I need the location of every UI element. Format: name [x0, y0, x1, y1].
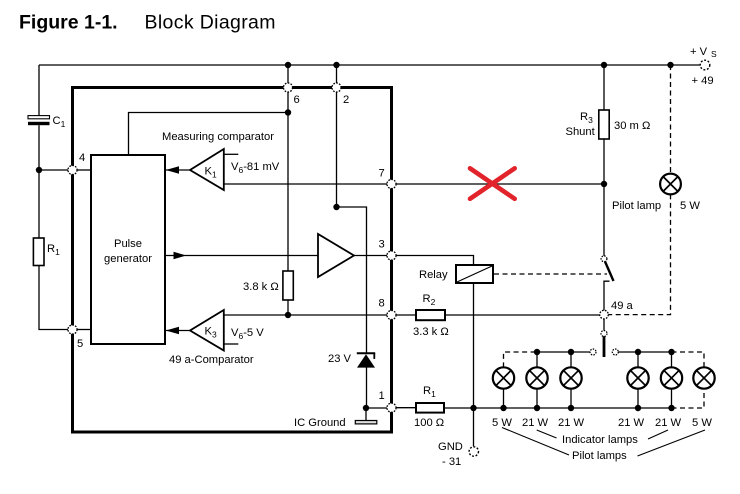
- wire pulse gen output to amp with arrowhead: [165, 255, 318, 257]
- zener diode 23V: [328, 353, 375, 368]
- wire pin4 to pulse generator: [77, 169, 91, 171]
- capacitor C1: [28, 115, 66, 129]
- comparator K1: [190, 149, 224, 190]
- lamp bus top left dashed: [504, 352, 538, 367]
- pointer line indicator lamps to 21W-4: [648, 430, 668, 439]
- node pin7/shunt junction: [601, 181, 607, 187]
- svg-text:3.8 k Ω: 3.8 k Ω: [243, 281, 279, 293]
- svg-text:21 W: 21 W: [522, 417, 549, 429]
- node pin2 corner: [333, 204, 339, 210]
- pin 2: [332, 83, 349, 106]
- pin 4: [68, 152, 85, 175]
- svg-text:3.3 k Ω: 3.3 k Ω: [413, 326, 449, 338]
- wire pin7 node down to switch contact: [603, 184, 605, 256]
- svg-text:4: 4: [79, 152, 85, 164]
- dashed wire pilot lamp to 49a: [608, 194, 670, 314]
- wire pin 7 to shunt node: [396, 183, 604, 185]
- wire feedback pulse-gen top to pin6 line: [129, 113, 289, 156]
- wire K1 output to pulse gen with arrowhead: [166, 169, 190, 171]
- svg-text:49 a: 49 a: [611, 300, 634, 312]
- flasher switch top contact: [601, 331, 607, 337]
- svg-text:30 m Ω: 30 m Ω: [614, 120, 650, 132]
- wire top bus down to R3: [603, 65, 605, 110]
- wire amp output to pin 3: [354, 255, 387, 257]
- switch lower contact L: [604, 281, 610, 310]
- svg-text:6: 6: [294, 94, 300, 106]
- wire R1 down to pin 5: [39, 266, 68, 330]
- wire pin6 down to 3.8k: [287, 92, 289, 271]
- wire 3.8k to K3 node: [287, 300, 289, 315]
- svg-text:5: 5: [77, 338, 83, 350]
- wire R3 to pin7 node: [603, 139, 605, 184]
- svg-text:5 W: 5 W: [692, 417, 712, 429]
- lamp bus top right dashed: [672, 352, 705, 367]
- svg-text:Pulse: Pulse: [114, 238, 142, 250]
- indicator lamp 5 (21W): [655, 349, 682, 429]
- stub K3 reference input: [224, 343, 239, 345]
- wire top supply bus: [39, 64, 701, 66]
- wire pin 1 to R1: [396, 407, 416, 409]
- wire relay coil down to ground bus: [473, 283, 475, 408]
- lamp bus bottom right dashed: [672, 389, 705, 408]
- pin 1: [379, 390, 397, 412]
- svg-text:23 V: 23 V: [328, 353, 352, 365]
- lamp bus top right solid: [618, 351, 671, 353]
- flasher switch bar: [603, 336, 606, 357]
- indicator lamp 1 (5W left): [492, 367, 514, 429]
- resistor R3 shunt: [566, 110, 651, 139]
- svg-text:5 W: 5 W: [680, 200, 700, 212]
- pin 5: [68, 325, 83, 350]
- op-amp output buffer: [318, 234, 354, 277]
- wire ground bus R1 to lamps: [444, 407, 672, 409]
- pulse generator block: [91, 155, 165, 344]
- svg-text:8: 8: [379, 298, 385, 310]
- svg-text:21 W: 21 W: [618, 417, 645, 429]
- svg-text:Pilot lamps: Pilot lamps: [572, 450, 627, 462]
- pin 7: [379, 168, 397, 189]
- pin 6: [283, 83, 299, 106]
- svg-text:Block Diagram: Block Diagram: [145, 12, 276, 34]
- svg-text:21 W: 21 W: [655, 417, 682, 429]
- svg-text:7: 7: [379, 168, 385, 180]
- svg-text:+ V: + V: [690, 46, 708, 58]
- wire pin2 to top bus: [336, 65, 338, 83]
- node feedback/pin6 junction: [285, 109, 291, 115]
- resistor R2: [413, 293, 449, 338]
- wire pin2 down to corner: [336, 92, 338, 207]
- pointer line 5W-left to pilot lamps: [502, 428, 569, 456]
- flasher switch left contact: [590, 349, 596, 355]
- node top bus / R3: [601, 62, 607, 68]
- node top bus / pilot lamp branch: [667, 62, 673, 68]
- wire pin5 to pulse generator: [77, 329, 91, 331]
- lamp bus top left solid: [537, 351, 590, 353]
- svg-text:+ 49: + 49: [692, 75, 714, 87]
- wire node to pin 1: [366, 407, 387, 409]
- wire pin 3 to relay: [396, 256, 474, 266]
- switch blade: [605, 262, 614, 282]
- wire GND branch: [473, 408, 475, 446]
- wire K3 output to pulse gen with arrowhead: [166, 330, 190, 332]
- wire K1 lower input to pin 7: [224, 183, 387, 185]
- wire left branch vertical upper: [38, 65, 40, 116]
- wire node down to R1: [38, 170, 40, 238]
- wire pin6 to top bus: [287, 65, 289, 83]
- terminal +VS: [690, 46, 717, 87]
- svg-text:- 31: - 31: [442, 456, 461, 468]
- wire C1 to node: [38, 125, 40, 170]
- svg-text:100 Ω: 100 Ω: [414, 417, 444, 429]
- svg-text:Measuring comparator: Measuring comparator: [162, 131, 274, 143]
- svg-text:49 a-Comparator: 49 a-Comparator: [169, 354, 254, 366]
- pin 8: [379, 298, 397, 320]
- IC outer box: [73, 88, 392, 433]
- svg-text:IC Ground: IC Ground: [294, 417, 346, 429]
- indicator lamp 3 (21W): [558, 349, 585, 429]
- svg-text:Pilot lamp: Pilot lamp: [612, 200, 661, 212]
- wire pin 8 to R2: [396, 314, 416, 316]
- terminal GND -31: [438, 441, 478, 468]
- node ground bus / GND branch: [470, 405, 476, 411]
- red X cross-out: [470, 168, 515, 199]
- switch upper contact: [601, 256, 607, 262]
- stub K1 reference input: [224, 153, 239, 155]
- resistor 3.8k: [243, 271, 293, 300]
- svg-text:Indicator lamps: Indicator lamps: [562, 434, 638, 446]
- flasher switch right contact: [612, 349, 618, 355]
- resistor R1 (bottom): [414, 385, 444, 429]
- svg-text:Figure 1-1.: Figure 1-1.: [19, 12, 118, 34]
- svg-text:2: 2: [343, 94, 349, 106]
- node 49 a: [600, 300, 634, 319]
- svg-text:1: 1: [379, 390, 385, 402]
- pointer line pilot lamps to 5W-right: [638, 430, 706, 456]
- svg-text:Shunt: Shunt: [566, 126, 596, 138]
- svg-text:Relay: Relay: [419, 269, 448, 281]
- resistor R1 (left): [33, 238, 60, 266]
- wire corner to zener branch: [337, 207, 367, 354]
- dashed wire bus to pilot lamp: [670, 65, 672, 174]
- wire zener to ground node: [366, 368, 368, 409]
- wire R2 to 49a: [445, 314, 600, 316]
- wire node to pin 4: [39, 169, 68, 171]
- node pin2 top bus: [333, 62, 339, 68]
- svg-text:generator: generator: [104, 253, 152, 265]
- IC ground symbol: [294, 408, 377, 429]
- node 3.8k / K3 wire: [285, 312, 291, 318]
- indicator lamp 6 (5W right): [692, 367, 715, 429]
- indicator lamp 2 (21W): [522, 349, 549, 429]
- wire K3 upper input to pin 8: [224, 314, 387, 316]
- svg-text:S: S: [711, 49, 717, 59]
- node junction C1/R1/pin4: [36, 167, 42, 173]
- pilot lamp top: [612, 174, 700, 212]
- svg-text:21 W: 21 W: [558, 417, 585, 429]
- pin 3: [379, 239, 397, 261]
- wire 49a down to flasher switch: [603, 319, 605, 331]
- node zener/ground: [363, 405, 369, 411]
- pointer line 21W-1 to indicator lamps: [537, 430, 557, 438]
- comparator K3: [190, 310, 224, 351]
- node pin6 top bus: [285, 62, 291, 68]
- relay: [419, 265, 493, 283]
- dashed wire relay to switch: [494, 273, 607, 275]
- svg-text:3: 3: [379, 239, 385, 251]
- indicator lamp 4 (21W): [618, 349, 649, 429]
- svg-text:GND: GND: [438, 441, 463, 453]
- title: [19, 12, 276, 34]
